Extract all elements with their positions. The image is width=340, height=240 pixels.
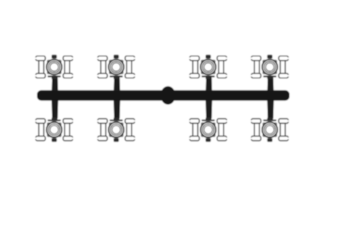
part top 2 [97,55,136,79]
runner bar [37,90,290,100]
part top 1 [35,55,74,79]
stem top 2 [114,76,120,92]
stem bottom 3 [206,100,213,120]
part top 3 [189,55,228,79]
part bottom 4 [250,118,289,142]
part bottom 3 [189,118,228,142]
part bottom 2 [97,118,136,142]
stem bottom 4 [267,100,274,120]
part top 4 [250,55,289,79]
stem top 3 [206,76,212,92]
injection blob [161,86,176,104]
stem top 4 [267,76,273,92]
part bottom 1 [35,118,74,142]
stem bottom 1 [52,100,59,120]
stem bottom 2 [114,100,121,120]
stem top 1 [52,76,58,92]
